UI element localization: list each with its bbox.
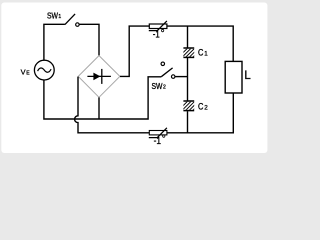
svg-text:-1: -1 [154, 136, 161, 147]
switch SW1 blade [65, 14, 75, 25]
wire bridge left corner down with hop over line A [75, 77, 150, 133]
svg-text:SW: SW [47, 11, 59, 20]
svg-text:2: 2 [204, 105, 208, 112]
wire SW1 to bridge top [79, 24, 99, 56]
svg-text:V: V [21, 68, 26, 77]
wire bridge bottom corner to line A [98, 97, 100, 119]
capacitor column top segment [187, 26, 189, 48]
thermistor RT2 temperature stroke [149, 128, 167, 138]
svg-text:C: C [198, 102, 204, 112]
voltage source VE sine wave [38, 68, 52, 72]
switch SW2 contact circle [171, 75, 175, 79]
background card [0, 0, 270, 157]
wire RT1 to top right corner and down to load [167, 26, 233, 61]
diode D1 cathode bar [101, 69, 103, 84]
wire line A: VE bottom to SW2 riser [44, 77, 161, 119]
svg-text:1: 1 [204, 50, 208, 57]
switch SW1 contact circle [76, 23, 80, 27]
wire load bottom to line B [167, 93, 233, 133]
capacitor C1 bottom plate [183, 56, 194, 58]
svg-text:°: ° [161, 28, 165, 39]
bridge rectifier diamond [78, 56, 120, 98]
svg-text:-1: -1 [153, 29, 160, 40]
diode D1 triangle [93, 73, 100, 81]
capacitor C2 bottom plate [183, 110, 194, 112]
thermistor RT1 temperature stroke [149, 21, 167, 31]
svg-text:C: C [198, 47, 204, 57]
wire bridge right corner up to top rail [120, 26, 149, 76]
capacitor column bottom segment [187, 111, 189, 133]
voltage source VE circle [34, 60, 54, 80]
capacitor C2 hatched body [178, 101, 202, 111]
switch SW2 blade [161, 68, 172, 77]
capacitor column middle segment [187, 58, 189, 101]
capacitor C1 top plate [183, 47, 194, 49]
thermistor RT2 body [149, 131, 167, 135]
capacitor C2 top plate [183, 100, 194, 102]
diode D1 anode line [87, 75, 111, 77]
wire SW2 to capacitor column [175, 76, 187, 78]
capacitor C1 hatched body [178, 48, 202, 58]
load L rectangle [225, 61, 242, 93]
svg-text:L: L [244, 70, 251, 82]
svg-text:°: ° [162, 134, 166, 145]
switch SW2 throw circle [161, 62, 165, 66]
svg-text:2: 2 [163, 85, 166, 91]
svg-text:SW: SW [152, 82, 164, 91]
wire V_E top to SW1 [44, 24, 65, 60]
thermistor RT1 body [149, 24, 167, 29]
svg-text:1: 1 [58, 14, 61, 20]
